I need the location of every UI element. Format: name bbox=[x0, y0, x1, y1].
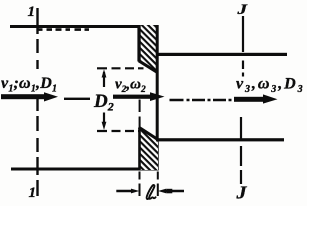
centerline right dash-dot bbox=[170, 99, 232, 101]
pipe wall top D1 bbox=[10, 25, 159, 28]
svg-text:1: 1 bbox=[29, 185, 37, 201]
svg-text:D2: D2 bbox=[93, 91, 114, 114]
section line 3 top bbox=[242, 16, 244, 77]
flow arrow v2 bbox=[113, 92, 165, 101]
plate lower chamfer bbox=[139, 127, 158, 139]
orifice plate upper block bbox=[140, 25, 159, 72]
pipe wall bottom D1 bbox=[11, 168, 159, 171]
dimension l line left with arrow bbox=[116, 190, 132, 192]
svg-text:J: J bbox=[236, 2, 248, 18]
plate upper left face bbox=[137, 25, 140, 62]
plate bore dashed line bbox=[139, 100, 141, 132]
plate upper chamfer bbox=[139, 61, 158, 73]
section line 3 bottom bbox=[240, 117, 242, 184]
flow arrow v1 bbox=[1, 92, 58, 101]
svg-text:1: 1 bbox=[28, 4, 36, 20]
wall inner dashed artifact bbox=[37, 28, 89, 31]
svg-text:v2,ω2: v2,ω2 bbox=[115, 77, 146, 95]
dimension l line right with arrow bbox=[166, 190, 184, 192]
svg-text:v3,ω3,D3: v3,ω3,D3 bbox=[236, 76, 304, 96]
svg-text:J: J bbox=[235, 183, 247, 203]
orifice plate lower block bbox=[140, 128, 159, 171]
section line 1 bbox=[36, 8, 38, 196]
plate lower left face bbox=[138, 128, 141, 171]
flow arrow v3 bbox=[234, 94, 278, 103]
label l bbox=[147, 185, 156, 199]
dimension l extension dashed right bbox=[157, 172, 159, 197]
dimension D2 bottom extension dashed bbox=[97, 130, 142, 132]
dimension l extension dashed left bbox=[139, 172, 141, 197]
plate right face bbox=[156, 25, 159, 171]
dimension D2 upper arrow bbox=[103, 72, 105, 87]
pipe wall top D3 bbox=[156, 53, 287, 56]
dimension D2 top extension dashed bbox=[97, 67, 144, 69]
dimension D2 lower arrow bbox=[103, 113, 105, 124]
centerline left dash bbox=[64, 98, 90, 100]
pipe wall bottom D3 bbox=[156, 138, 284, 141]
svg-text:v1;ω1,D1: v1;ω1,D1 bbox=[1, 75, 57, 95]
